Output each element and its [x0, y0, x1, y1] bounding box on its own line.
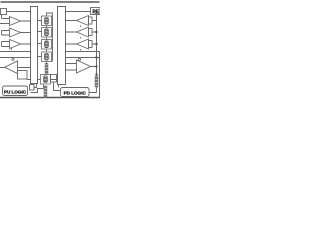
transistor M2 — [42, 28, 52, 38]
wire staircase PU b — [31, 85, 44, 93]
wire B1 output — [21, 20, 31, 22]
junction dot 2 — [95, 43, 97, 45]
junction dot 3 — [95, 56, 97, 58]
svg-text:RE: RE — [92, 9, 100, 15]
transistor M1 — [42, 16, 52, 26]
wire drain chain — [46, 26, 48, 53]
wire C1 input from left — [0, 67, 5, 69]
wire B1 inputs — [0, 15, 10, 24]
wire C1 from U1 — [18, 67, 31, 69]
wire M2 gate — [38, 31, 42, 33]
wire staircase PU a — [34, 84, 37, 88]
buffer B1 — [10, 17, 21, 26]
driver D1 — [77, 60, 91, 73]
wire C1 enable stub — [12, 57, 14, 60]
wire A1 bias stub — [80, 26, 82, 28]
receiver A1 — [77, 16, 89, 26]
wire R3 to PD logic — [89, 87, 96, 93]
wire D1 output — [91, 66, 97, 68]
wire C1 box to U1 — [27, 79, 31, 81]
wire left rail 1 — [0, 51, 31, 53]
wire A2 to pad — [92, 31, 97, 33]
wire left rail 2 — [0, 57, 31, 59]
svg-text:PD LOGIC: PD LOGIC — [64, 91, 87, 96]
receiver A2 — [77, 27, 89, 37]
node input box A — [1, 9, 7, 15]
wire D1 enable stub — [79, 57, 81, 60]
wire B3 enable stub — [11, 48, 13, 50]
wire R1 top lead — [46, 62, 48, 64]
node A1 termination box — [89, 17, 93, 24]
inverter C1 — [5, 61, 18, 74]
wire top rail — [1, 1, 100, 3]
output stage block U2 — [58, 7, 66, 85]
wire U2 to RE — [66, 11, 91, 13]
wire pad rail — [96, 15, 98, 77]
wire box A to U1 — [7, 11, 31, 13]
wire A1 output — [66, 20, 77, 22]
wire right border — [99, 52, 101, 98]
wire A3 to pad — [92, 43, 97, 45]
bubble D1 enable — [78, 58, 80, 60]
wire M1 gate — [38, 20, 42, 22]
wire bias box to U2 — [57, 78, 58, 80]
block PD LOGIC — [61, 88, 90, 97]
wire A2 output — [66, 31, 77, 33]
wire B3 output — [21, 43, 31, 45]
node U2 bias box — [51, 75, 57, 83]
wire right rail 2 — [66, 57, 100, 59]
resistor R1 — [45, 64, 48, 75]
resistor RE box — [91, 8, 101, 15]
wire A3 output — [66, 43, 77, 45]
wire source rail — [47, 13, 53, 62]
svg-text:PU LOGIC: PU LOGIC — [4, 89, 27, 94]
node C1 latch box — [18, 71, 28, 80]
resistor R3 — [95, 76, 98, 87]
node A2 termination box — [89, 29, 93, 36]
wire bottom ground rail — [0, 97, 100, 99]
wire D1 inputs — [66, 64, 77, 71]
wire B3 inputs — [2, 42, 10, 47]
buffer B3 — [10, 40, 21, 49]
junction dot 5 — [95, 73, 97, 75]
wire A2 bias stub — [80, 37, 82, 39]
junction dot 1 — [95, 31, 97, 33]
wire M5 to U2 — [51, 79, 58, 81]
transistor M5 — [41, 75, 51, 85]
wire right rail 1 — [66, 51, 100, 53]
wire A3 bias stub — [80, 49, 82, 51]
wire M5 gate — [38, 79, 41, 81]
node PU feedback box — [30, 85, 35, 91]
node A3 termination box — [89, 41, 93, 48]
wire M4 gate — [38, 56, 42, 58]
wire A1 to pad — [92, 20, 97, 22]
wire B2 inputs — [2, 31, 10, 36]
transistor M4 — [42, 52, 52, 62]
pre-driver block U1 — [31, 7, 38, 84]
transistor M3 — [42, 40, 52, 50]
receiver A3 — [77, 39, 89, 49]
wire bias box to PD — [54, 82, 61, 91]
bubble C1 enable — [12, 58, 14, 60]
wire U2 to PD step — [58, 85, 60, 88]
wire M3 gate — [38, 43, 42, 45]
junction dot 4 — [95, 65, 97, 67]
resistor R2 — [44, 86, 47, 98]
buffer B2 — [10, 28, 21, 37]
wire B2 output — [21, 32, 31, 34]
block PU LOGIC — [3, 86, 28, 96]
